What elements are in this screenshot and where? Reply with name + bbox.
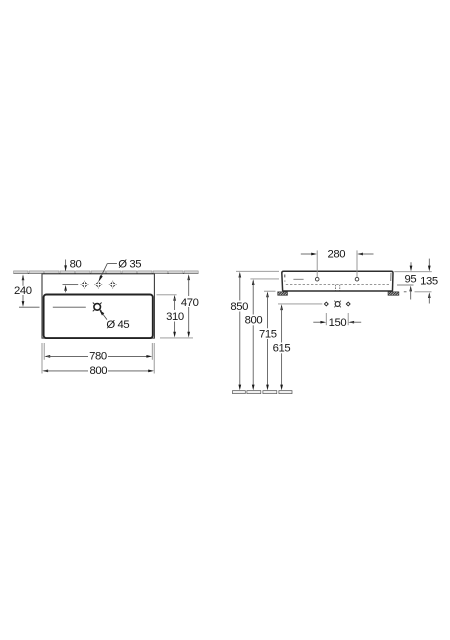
svg-text:800: 800 [89,365,107,377]
inner wall line right end (elevation) [390,273,392,281]
svg-text:310: 310 [166,311,184,323]
dimension 150 (fixing holes spacing) [313,313,361,329]
wall hatch bricks (plan view) [14,271,199,274]
dimension 310 (bowl depth) [166,295,184,338]
dimension 615 [273,304,291,390]
left inner tick (elevation) [284,275,286,278]
extension line bowl top right (310) [157,294,177,296]
svg-text:850: 850 [230,301,248,313]
dimension 95 [397,262,416,299]
dimension 800 (wall holes height) [245,279,263,390]
overflow slot (elevation) [293,278,303,280]
svg-text:80: 80 [70,259,82,271]
tap hole center O35 (plan view) [94,281,102,289]
dimension 240 (left, wall to bowl centerline) [14,274,40,307]
dimension 135 [404,259,438,304]
fixing hole right diamond [346,302,350,306]
hidden drain dashes (elevation) [334,285,336,291]
svg-text:240: 240 [14,285,32,297]
drain hole O45 (plan view) [93,303,102,312]
hidden bowl bottom dashed line (elevation) [286,283,390,285]
svg-text:95: 95 [405,273,417,285]
extension line bottom right (310/470) [160,337,193,339]
extension line 800 (mounting holes, left) [250,278,279,280]
extension line 715 (underside, left) [264,290,276,292]
dimension 80 (tap holes from wall) [64,259,81,293]
label O45 with leader [99,310,129,331]
fixing hole left diamond [324,302,328,306]
svg-text:800: 800 [245,315,263,327]
floor hatch bricks [233,391,293,394]
mounting hole right (elevation) [355,277,359,281]
svg-text:470: 470 [181,297,199,309]
mounting hole left (elevation) [315,277,319,281]
basin bowl rim (plan view, thick rounded rect) [44,295,153,339]
tap hole left (plan view) [81,281,89,289]
dimension 470 (total depth) [181,274,199,337]
dimension 780 [44,350,152,362]
wall bracket pad right (hatched) [388,292,399,296]
svg-text:280: 280 [327,248,345,260]
dimension 800 [42,365,154,377]
basin outer outline (plan view 800x470) [42,274,154,338]
wall bracket pad left (hatched) [278,292,288,296]
basin body outline (elevation) [282,271,393,291]
drain centerline segment inside bowl [53,306,86,308]
svg-text:615: 615 [273,343,291,355]
extension line 850 (top of basin, left) [236,270,279,272]
svg-text:Ø 45: Ø 45 [106,319,129,331]
dimension 280 (mounting holes spacing) [301,248,374,277]
svg-text:715: 715 [259,328,277,340]
label O35 with leader [99,258,142,282]
svg-text:135: 135 [420,276,438,288]
drain circle (615 row) [334,301,341,308]
tap hole right (plan view) [109,281,117,289]
svg-text:150: 150 [329,317,347,329]
dimension 715 [259,292,277,391]
tap hole centerline (plan view) [63,284,79,286]
svg-text:Ø 35: Ø 35 [118,258,141,270]
top extension line right of body (95/135) [394,271,432,273]
dimension 850 [230,272,248,391]
extension line 615 (fixing holes row) [278,303,322,305]
extension lines below basin (780/800) [42,343,154,374]
svg-text:780: 780 [89,350,107,362]
wall line (plan view) [14,273,199,275]
